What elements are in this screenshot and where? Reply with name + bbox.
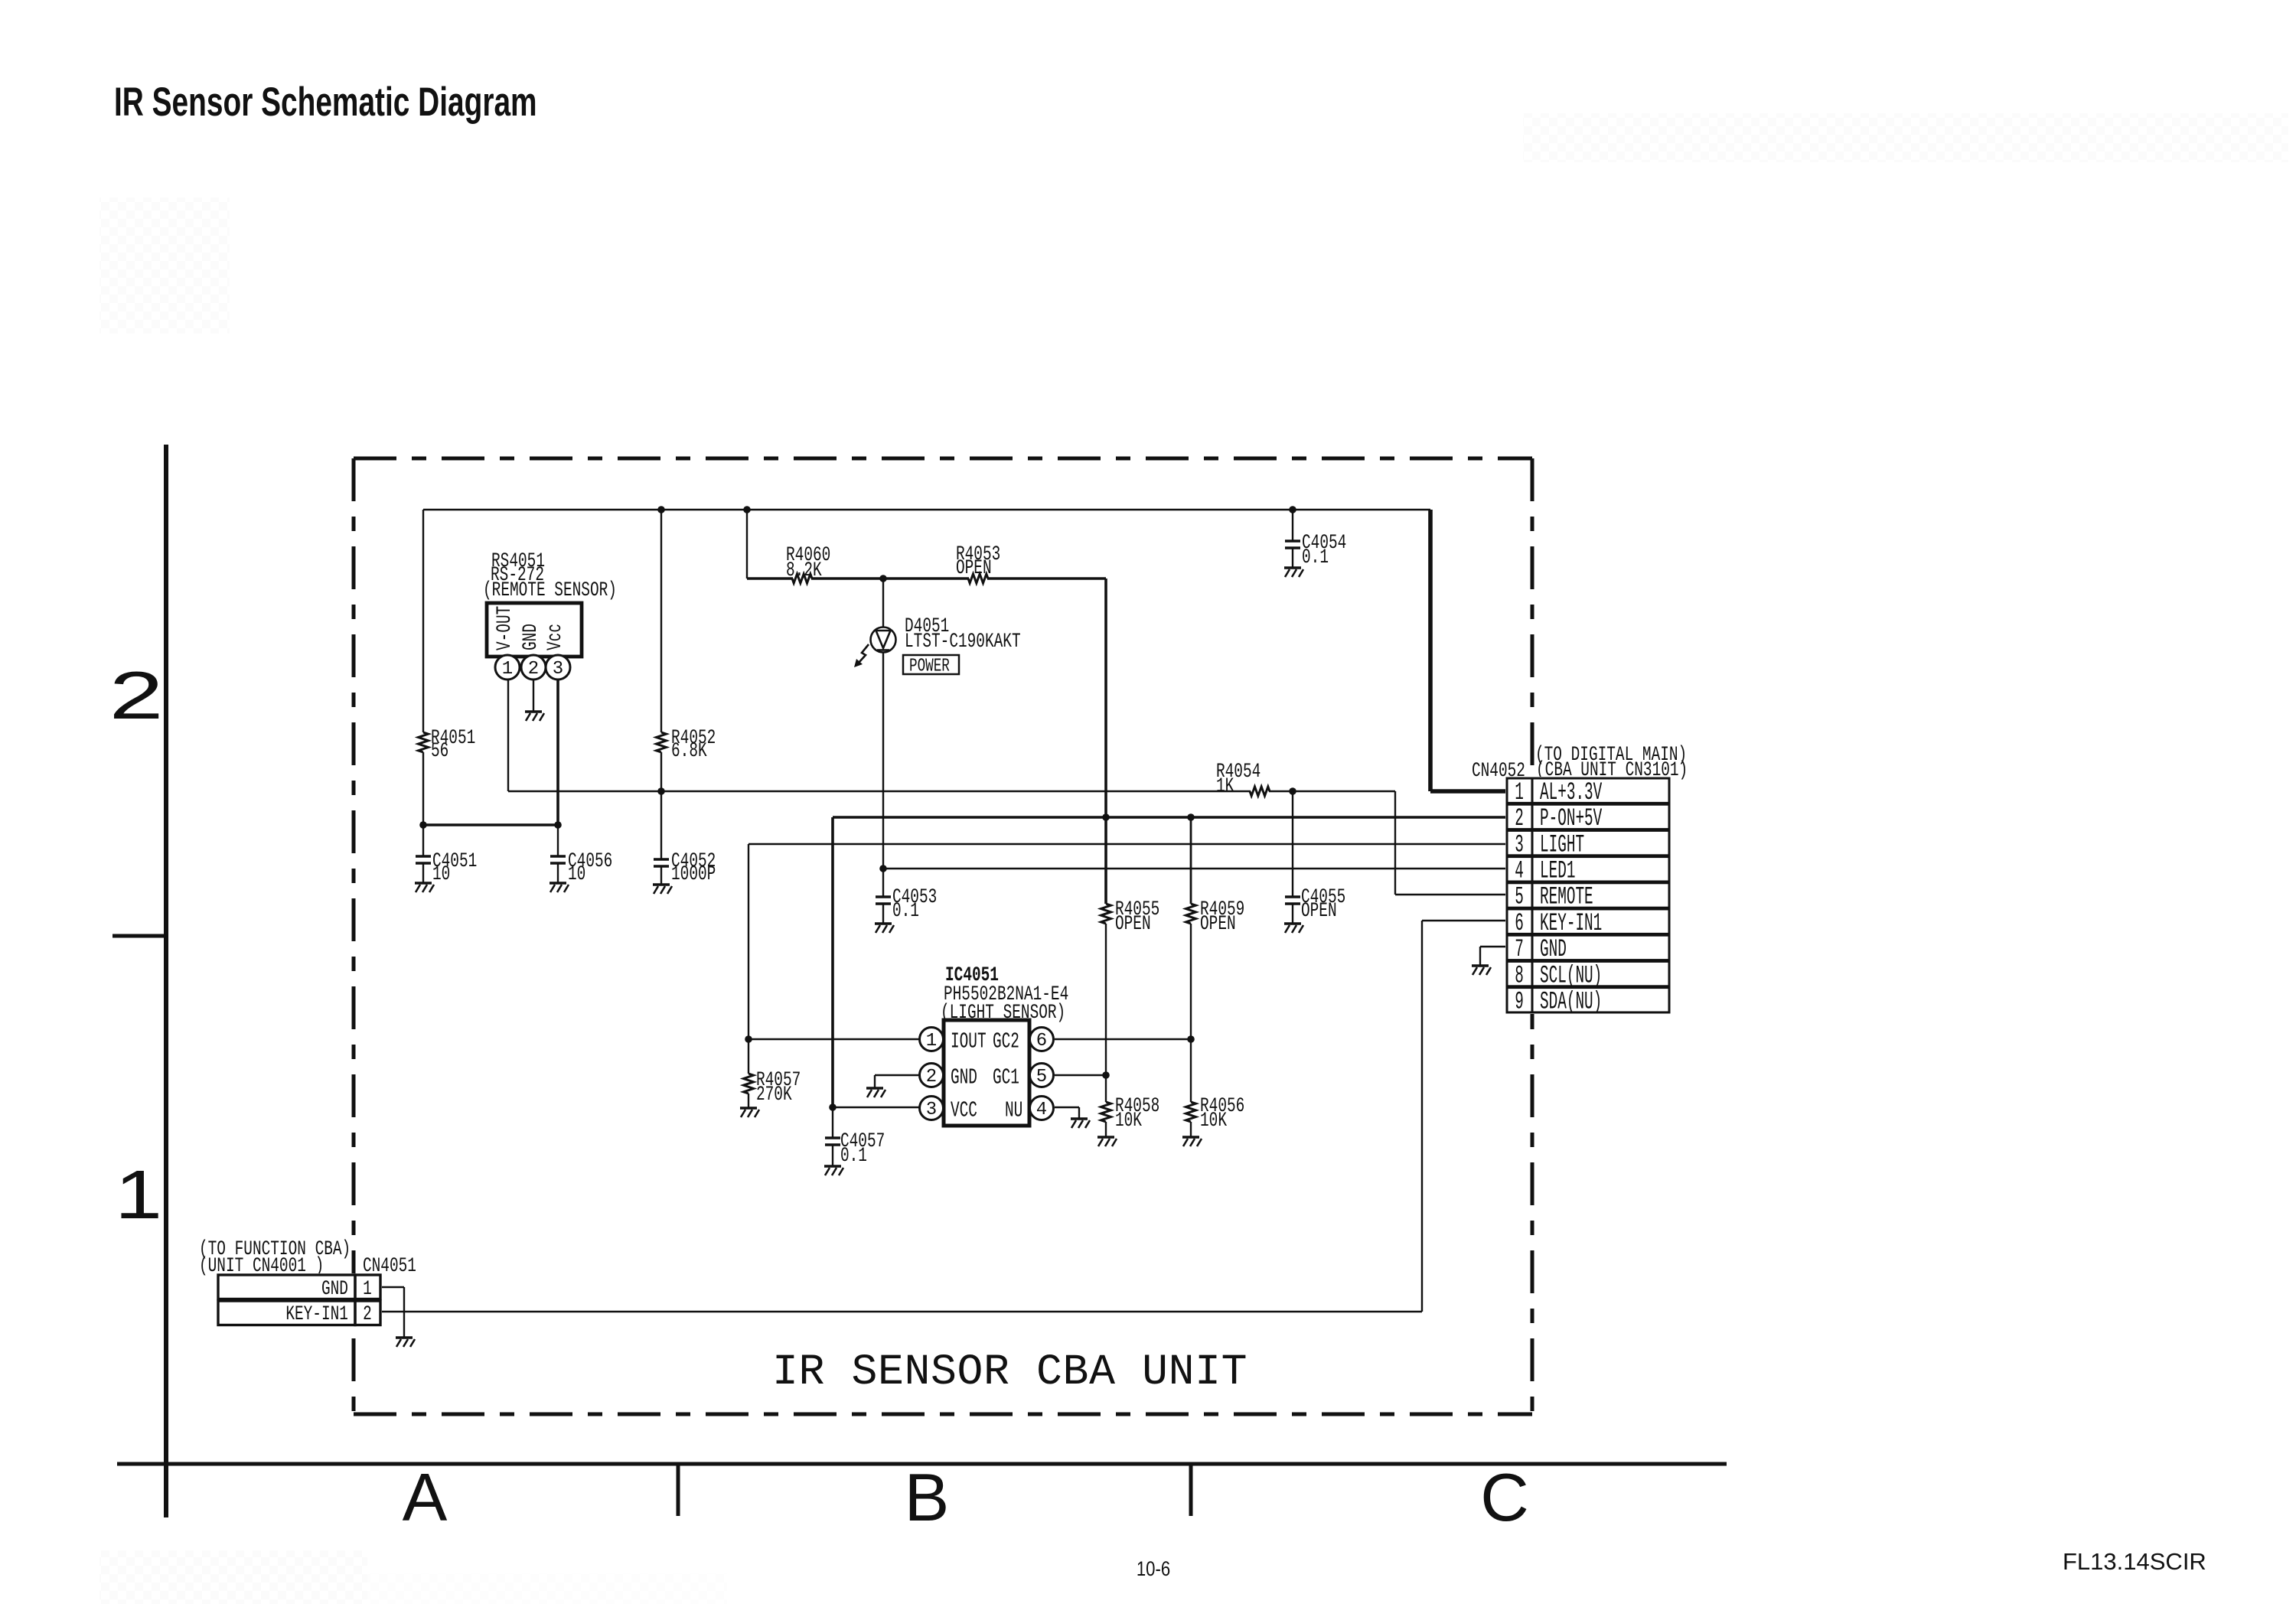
svg-text:LTST-C190KAKT: LTST-C190KAKT (905, 630, 1021, 654)
svg-text:SCL(NU): SCL(NU) (1540, 962, 1602, 989)
svg-text:C: C (1480, 1459, 1529, 1535)
svg-text:5: 5 (1036, 1067, 1047, 1087)
svg-text:B: B (905, 1459, 950, 1535)
svg-text:KEY-IN1: KEY-IN1 (285, 1302, 348, 1326)
svg-text:6.8K: 6.8K (671, 739, 707, 763)
svg-text:2: 2 (1515, 804, 1524, 832)
svg-text:9: 9 (1515, 988, 1524, 1015)
svg-text:10: 10 (432, 862, 450, 886)
svg-text:SDA(NU): SDA(NU) (1540, 988, 1602, 1015)
svg-text:1K: 1K (1216, 774, 1234, 798)
svg-text:LED1: LED1 (1540, 857, 1575, 885)
svg-text:8.2K: 8.2K (786, 559, 822, 582)
svg-text:GND: GND (519, 624, 543, 650)
svg-text:3: 3 (926, 1100, 937, 1120)
svg-text:IR Sensor Schematic Diagram: IR Sensor Schematic Diagram (114, 79, 537, 124)
svg-text:4: 4 (1515, 857, 1524, 885)
svg-text:P-ON+5V: P-ON+5V (1540, 804, 1602, 832)
svg-text:IR SENSOR CBA UNIT: IR SENSOR CBA UNIT (772, 1348, 1247, 1397)
svg-text:V-OUT: V-OUT (493, 606, 517, 650)
svg-text:0.1: 0.1 (840, 1144, 867, 1168)
svg-text:2: 2 (363, 1302, 372, 1326)
svg-text:10: 10 (568, 862, 585, 886)
svg-text:56: 56 (431, 739, 448, 763)
svg-text:VCC: VCC (951, 1098, 977, 1123)
svg-text:1: 1 (502, 659, 513, 680)
svg-text:2: 2 (926, 1067, 937, 1087)
svg-text:3: 3 (553, 659, 563, 680)
svg-text:1: 1 (363, 1277, 372, 1301)
svg-text:GC2: GC2 (993, 1029, 1019, 1054)
svg-text:GND: GND (321, 1277, 348, 1301)
svg-text:GC1: GC1 (993, 1065, 1019, 1090)
svg-text:OPEN: OPEN (1115, 912, 1151, 936)
svg-text:KEY-IN1: KEY-IN1 (1540, 909, 1602, 937)
svg-text:10-6: 10-6 (1137, 1558, 1170, 1581)
svg-text:NU: NU (1005, 1098, 1022, 1123)
svg-text:A: A (403, 1459, 448, 1535)
svg-text:10K: 10K (1115, 1109, 1143, 1133)
svg-text:6: 6 (1515, 909, 1524, 937)
svg-text:(LIGHT SENSOR): (LIGHT SENSOR) (941, 1001, 1065, 1025)
svg-text:POWER: POWER (909, 656, 950, 677)
svg-text:1000P: 1000P (671, 862, 716, 886)
svg-text:0.1: 0.1 (892, 899, 919, 923)
svg-text:6: 6 (1036, 1031, 1047, 1051)
svg-text:0.1: 0.1 (1302, 546, 1329, 569)
svg-text:1: 1 (926, 1031, 937, 1051)
svg-text:REMOTE: REMOTE (1540, 883, 1593, 911)
svg-text:OPEN: OPEN (956, 556, 992, 580)
svg-text:3: 3 (1515, 831, 1524, 859)
svg-text:OPEN: OPEN (1200, 912, 1236, 936)
svg-text:LIGHT: LIGHT (1540, 831, 1584, 859)
svg-text:GND: GND (1540, 935, 1567, 963)
svg-text:OPEN: OPEN (1301, 899, 1337, 923)
svg-text:AL+3.3V: AL+3.3V (1540, 778, 1602, 806)
svg-text:5: 5 (1515, 883, 1524, 911)
svg-text:4: 4 (1036, 1100, 1047, 1120)
svg-text:2: 2 (528, 659, 539, 680)
svg-text:IOUT: IOUT (951, 1029, 987, 1054)
svg-text:FL13.14SCIR: FL13.14SCIR (2063, 1548, 2206, 1575)
svg-text:(REMOTE SENSOR): (REMOTE SENSOR) (483, 579, 617, 602)
svg-text:10K: 10K (1200, 1109, 1228, 1133)
svg-text:Vcc: Vcc (543, 624, 567, 650)
svg-text:1: 1 (1515, 778, 1524, 806)
svg-text:8: 8 (1515, 962, 1524, 989)
svg-text:270K: 270K (756, 1083, 792, 1107)
svg-text:2: 2 (109, 658, 164, 733)
svg-text:GND: GND (951, 1065, 977, 1090)
svg-text:1: 1 (115, 1156, 162, 1233)
svg-text:7: 7 (1515, 935, 1524, 963)
